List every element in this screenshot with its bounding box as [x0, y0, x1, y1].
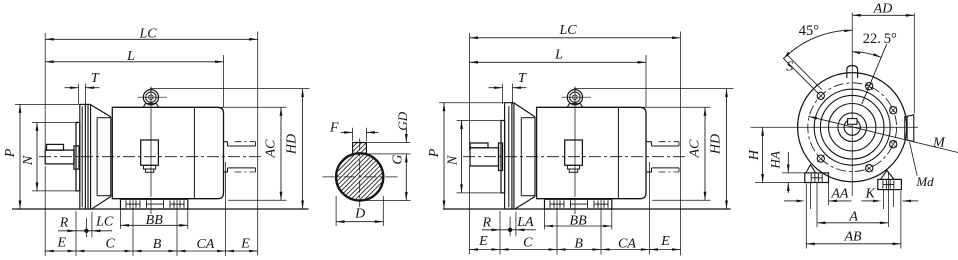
svg-text:Md: Md	[915, 174, 934, 189]
svg-text:M: M	[932, 136, 946, 151]
svg-text:R: R	[482, 215, 492, 230]
svg-text:LA: LA	[516, 215, 534, 230]
svg-text:L: L	[126, 49, 135, 64]
svg-text:45°: 45°	[799, 23, 820, 39]
svg-text:T: T	[518, 71, 527, 86]
svg-text:G: G	[391, 154, 406, 164]
svg-text:22. 5°: 22. 5°	[863, 31, 897, 47]
svg-text:AC: AC	[688, 139, 703, 159]
svg-text:CA: CA	[618, 237, 636, 252]
svg-text:K: K	[865, 186, 876, 201]
svg-text:GD: GD	[395, 111, 410, 130]
svg-text:AD: AD	[873, 2, 893, 17]
svg-text:BB: BB	[570, 214, 588, 229]
svg-text:D: D	[354, 206, 365, 221]
svg-text:N: N	[21, 155, 36, 166]
svg-text:BB: BB	[146, 213, 164, 228]
svg-text:P: P	[3, 148, 18, 158]
svg-text:LC: LC	[558, 23, 577, 38]
svg-text:A: A	[848, 210, 858, 225]
svg-text:B: B	[574, 237, 583, 252]
svg-text:N: N	[446, 155, 461, 166]
svg-text:AC: AC	[264, 139, 279, 159]
svg-text:F: F	[329, 121, 339, 136]
svg-text:CA: CA	[196, 237, 214, 252]
svg-text:B: B	[153, 237, 162, 252]
svg-text:E: E	[240, 237, 250, 252]
svg-text:HA: HA	[767, 151, 782, 169]
svg-text:T: T	[91, 71, 100, 86]
svg-text:S: S	[786, 60, 793, 75]
svg-text:LC: LC	[95, 215, 114, 230]
svg-text:P: P	[427, 148, 442, 158]
svg-text:R: R	[59, 216, 69, 231]
svg-text:H: H	[747, 149, 762, 161]
svg-text:AB: AB	[843, 230, 862, 245]
svg-text:C: C	[106, 237, 116, 252]
svg-text:LC: LC	[138, 26, 157, 41]
svg-text:HD: HD	[284, 134, 299, 155]
svg-text:HD: HD	[708, 134, 723, 155]
svg-text:E: E	[660, 234, 670, 249]
svg-text:E: E	[57, 236, 67, 251]
svg-text:L: L	[554, 47, 563, 62]
svg-text:AA: AA	[830, 187, 849, 202]
svg-text:E: E	[478, 234, 488, 249]
svg-text:C: C	[523, 236, 533, 251]
